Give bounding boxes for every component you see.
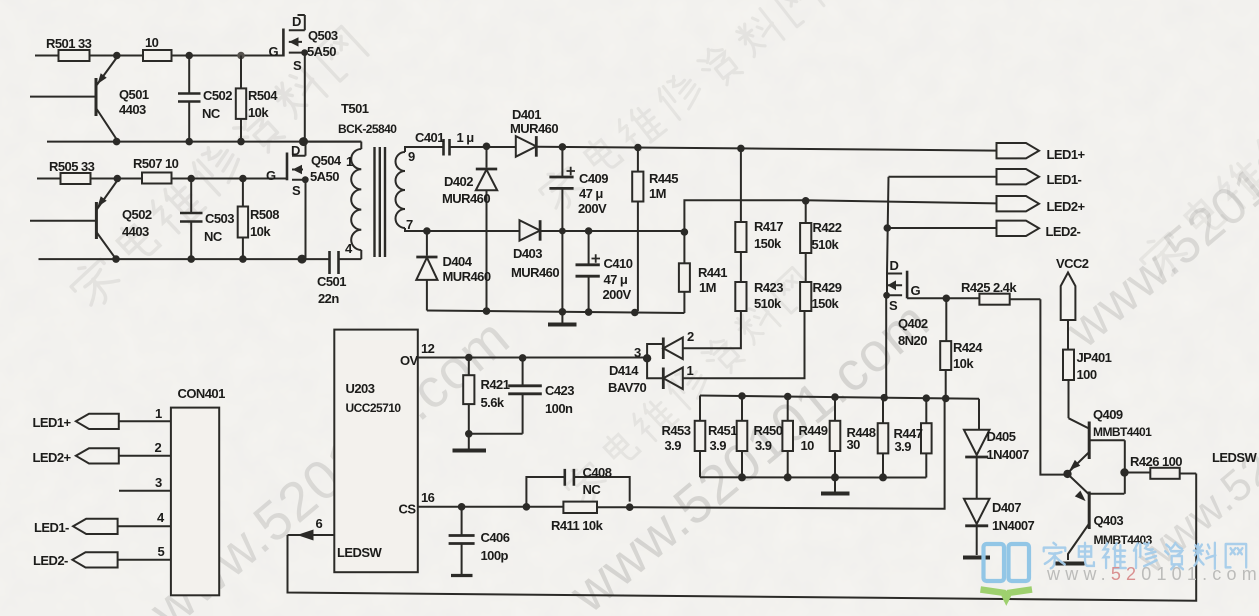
node bottom rail R445 [631, 309, 639, 317]
connector arrow LED1+ (left) [76, 414, 119, 429]
resistor R425 [946, 294, 1040, 305]
svg-text:R449: R449 [799, 423, 828, 438]
svg-text:CON401: CON401 [178, 386, 226, 401]
node Q402 gate / R425 / R424 [943, 295, 951, 303]
svg-text:1: 1 [155, 406, 162, 421]
logo book icon [981, 544, 1033, 602]
svg-text:LED2+: LED2+ [1047, 199, 1086, 214]
svg-text:MUR460: MUR460 [443, 269, 491, 284]
node rail1-C502 [185, 138, 193, 146]
svg-text:1M: 1M [699, 280, 716, 295]
transformer T501 secondary winding [396, 147, 430, 231]
svg-text:R421: R421 [481, 377, 510, 392]
connector arrow LED1- (left) [73, 519, 118, 534]
svg-text:5.6k: 5.6k [481, 395, 505, 410]
svg-text:C408: C408 [583, 465, 612, 480]
node bottom rail C409 [559, 308, 567, 316]
wire sense rail (bank top) [700, 396, 979, 430]
watermark diagonal cjk center [561, 266, 817, 508]
node bank bottom R451 [738, 473, 746, 481]
svg-text:NC: NC [583, 482, 602, 497]
wire U203 pin16 CS [418, 506, 564, 508]
wire CON401 pin1 [119, 420, 171, 422]
diode D404 [416, 231, 437, 311]
svg-text:200V: 200V [603, 287, 632, 302]
svg-text:510k: 510k [812, 237, 840, 252]
svg-text:D404: D404 [443, 254, 473, 269]
diode D407 [964, 499, 990, 555]
node bank top Q402 source [880, 394, 888, 402]
node rail1-Q501 collector [113, 138, 121, 146]
resistor R441 [679, 232, 690, 313]
capacitor C423 [508, 358, 542, 434]
transistor Q501 [30, 58, 117, 140]
wire U203 pin6 LEDSW with arrow [288, 530, 335, 541]
resistor R508 [238, 179, 248, 260]
svg-text:R504: R504 [248, 88, 278, 103]
capacitor C409 [549, 147, 575, 311]
transistor Q502 [30, 181, 117, 260]
svg-text:OV: OV [400, 353, 419, 368]
svg-text:Q502: Q502 [122, 207, 152, 222]
svg-text:Q501: Q501 [119, 87, 149, 102]
node bank top R449 [831, 393, 839, 401]
node mid rail C409 cross [559, 228, 566, 235]
svg-text:9: 9 [408, 149, 415, 164]
svg-text:R508: R508 [250, 207, 279, 222]
svg-text:5: 5 [158, 544, 165, 559]
svg-text:6: 6 [316, 516, 323, 531]
svg-text:LED1-: LED1- [1047, 172, 1082, 187]
node bank top R424/R411 [942, 395, 950, 403]
svg-text:BCK-25840: BCK-25840 [338, 122, 397, 136]
svg-text:R507 10: R507 10 [133, 156, 179, 171]
ground under rectifier rail [548, 312, 577, 325]
capacitor C503 [180, 179, 203, 260]
svg-text:MUR460: MUR460 [442, 191, 490, 206]
svg-text:3.9: 3.9 [665, 438, 682, 453]
svg-text:C409: C409 [579, 171, 608, 186]
svg-text:R417: R417 [754, 219, 783, 234]
node top rail D402 [483, 143, 491, 151]
resistor R447 [921, 398, 932, 477]
svg-text:MMBT4401: MMBT4401 [1093, 425, 1152, 439]
connector arrow LED1- (right) [889, 169, 1040, 184]
svg-text:Q504: Q504 [311, 153, 342, 168]
svg-text:D405: D405 [987, 429, 1016, 444]
connector arrow LED2+ (right) [997, 196, 1040, 211]
transistor Q409 [1069, 418, 1125, 472]
svg-text:C501: C501 [317, 274, 346, 289]
svg-text:G: G [269, 44, 279, 59]
svg-text:MUR460: MUR460 [510, 121, 558, 136]
wire bank bottom rail [700, 476, 926, 478]
svg-text:G: G [911, 283, 921, 298]
svg-text:150k: 150k [812, 296, 840, 311]
node bank bottom R450 [784, 473, 792, 481]
svg-text:R426 100: R426 100 [1130, 454, 1182, 469]
node rail2-R508 [239, 255, 247, 263]
wire input top rail to R501 [35, 55, 283, 57]
svg-text:1 μ: 1 μ [457, 130, 475, 145]
node wire1-C502 junction [185, 52, 193, 60]
resistor R421 [463, 358, 474, 434]
node 0V C423 [519, 354, 527, 362]
wire CS sense line to bank [630, 398, 945, 508]
connector arrow LED2- (right) [887, 221, 1039, 236]
watermark diagonal cjk top-left [66, 25, 370, 313]
svg-text:R445: R445 [649, 171, 678, 186]
svg-text:2: 2 [155, 440, 162, 455]
node LED2- junction [884, 224, 892, 232]
svg-text:Q503: Q503 [308, 28, 338, 43]
resistor R411 [563, 502, 629, 513]
node R421 ground [465, 430, 473, 438]
node top rail R445 [634, 144, 642, 152]
svg-text:150k: 150k [754, 236, 782, 251]
transformer T501 core [375, 147, 386, 257]
diode D402 [476, 146, 497, 311]
svg-text:G: G [266, 168, 276, 183]
diode D405 [964, 430, 990, 499]
svg-text:C502: C502 [203, 88, 232, 103]
svg-text:10k: 10k [248, 105, 269, 120]
resistor R453 [695, 396, 706, 478]
svg-text:VCC2: VCC2 [1056, 256, 1089, 271]
resistor R505 [61, 173, 91, 184]
svg-text:D407: D407 [992, 500, 1021, 515]
connector arrow LED2- (left) [72, 552, 117, 567]
svg-text:D403: D403 [513, 246, 542, 261]
svg-text:CS: CS [399, 502, 417, 517]
svg-text:UCC25710: UCC25710 [346, 401, 402, 415]
resistor R429 [683, 282, 812, 378]
transistor Q402 (MOSFET) [883, 271, 946, 398]
svg-text:D: D [291, 143, 300, 158]
svg-text:C410: C410 [604, 256, 633, 271]
resistor R501 [59, 50, 90, 61]
svg-text:R422: R422 [813, 220, 842, 235]
wire R441 node up to LED2+ [684, 200, 996, 232]
ground under R421 [453, 434, 487, 451]
capacitor C408 [526, 469, 629, 507]
wire R421-C423 bottom link [469, 433, 523, 435]
svg-text:12: 12 [421, 341, 435, 356]
wire U203 pin12 0V [418, 357, 647, 359]
connector arrow LED1+ (right) [997, 143, 1040, 158]
svg-text:R505 33: R505 33 [49, 159, 95, 174]
svg-text:BAV70: BAV70 [608, 380, 647, 395]
node rail2-Q504 source / C501 [298, 255, 307, 264]
node driver bases R426 [1120, 468, 1128, 476]
svg-text:1N4007: 1N4007 [987, 447, 1030, 462]
svg-text:D: D [292, 14, 301, 29]
wire input Q502 stage [37, 178, 287, 180]
svg-text:LED1+: LED1+ [33, 415, 72, 430]
svg-text:S: S [889, 298, 898, 313]
svg-text:1M: 1M [649, 186, 666, 201]
connector CON401 box [171, 408, 219, 596]
resistor R426 [1125, 468, 1197, 479]
node LED2+ R422 branch [802, 197, 810, 205]
resistor R451 [737, 396, 748, 478]
svg-text:4403: 4403 [122, 224, 149, 239]
resistor R417 [735, 148, 746, 282]
wire bottom rectifier rail [427, 311, 685, 314]
node wire3-R508 [239, 175, 247, 183]
op-amp U203 (controller IC box) [334, 330, 418, 573]
svg-text:R423: R423 [754, 280, 783, 295]
svg-text:MUR460: MUR460 [511, 265, 559, 280]
resistor R504 [236, 56, 246, 142]
svg-text:R501 33: R501 33 [46, 36, 92, 51]
ground under bank [821, 477, 850, 493]
resistor R507 [142, 173, 172, 184]
wire R425 down to driver [1040, 299, 1066, 474]
node rail2-Q502 collector [112, 255, 120, 263]
capacitor C401 [444, 139, 516, 156]
svg-text:7: 7 [406, 217, 413, 232]
svg-text:C423: C423 [545, 383, 574, 398]
node wire1-Q501 emitter junction [113, 52, 121, 60]
svg-text:U203: U203 [346, 381, 375, 396]
svg-text:R425 2.4k: R425 2.4k [961, 280, 1017, 295]
capacitor C410 [576, 231, 601, 311]
svg-text:D414: D414 [609, 363, 639, 378]
node bank top R451 [738, 392, 746, 400]
node rail2-C503 [187, 255, 195, 263]
svg-text:30: 30 [847, 437, 861, 452]
ground under D407 [963, 556, 990, 560]
resistor R445 [632, 148, 643, 312]
svg-text:5A50: 5A50 [307, 44, 336, 59]
svg-text:C406: C406 [481, 530, 510, 545]
node bottom rail C410 [585, 308, 593, 316]
svg-text:R424: R424 [953, 340, 983, 355]
resistor JP401 [1063, 350, 1074, 419]
node wire3-C503 [187, 175, 195, 183]
svg-text:R453: R453 [662, 423, 691, 438]
power VCC2 arrow [1061, 273, 1076, 350]
wire mid rail (pin7) [427, 230, 685, 232]
svg-text:10k: 10k [953, 356, 974, 371]
node CS R411 left / C408 [523, 503, 531, 511]
svg-text:3: 3 [155, 475, 162, 490]
svg-text:LED2+: LED2+ [33, 450, 72, 465]
diode D414 pin2 [647, 338, 683, 360]
wire secondary top to C401 [429, 146, 444, 148]
svg-text:1N4007: 1N4007 [992, 518, 1035, 533]
svg-text:10: 10 [801, 438, 815, 453]
svg-text:100p: 100p [481, 548, 509, 563]
svg-text:JP401: JP401 [1077, 350, 1112, 365]
svg-text:NC: NC [202, 106, 221, 121]
node driver emitters [1063, 470, 1071, 478]
svg-text:Q403: Q403 [1094, 513, 1124, 528]
wire CON401 pin2 [119, 455, 171, 457]
svg-text:16: 16 [421, 490, 435, 505]
wire rail1 (upper stage common) [47, 141, 361, 143]
node wire3-Q502 emitter [114, 175, 122, 183]
svg-text:Q409: Q409 [1093, 407, 1123, 422]
capacitor C406 [449, 507, 475, 576]
svg-text:1: 1 [687, 363, 694, 378]
svg-text:Q402: Q402 [898, 316, 928, 331]
resistor R449 [830, 397, 841, 478]
node CS C406 [458, 503, 466, 511]
svg-text:R441: R441 [698, 265, 727, 280]
svg-text:S: S [293, 58, 302, 73]
capacitor C502 [178, 56, 201, 142]
ground under Q403 [1056, 562, 1085, 566]
connector arrow LED2+ (left) [76, 448, 119, 463]
svg-text:www.520101.com: www.520101.com [1046, 564, 1259, 584]
node D414 pin3 [643, 354, 651, 362]
svg-text:R451: R451 [708, 423, 737, 438]
svg-text:LEDSW: LEDSW [337, 545, 382, 560]
svg-text:R450: R450 [754, 423, 783, 438]
wire rail2 (lower stage common) [39, 258, 303, 260]
transistor Q503 (MOSFET) [283, 15, 308, 142]
diode D403 [520, 220, 541, 241]
node bottom rail D402 [483, 307, 491, 315]
svg-text:S: S [292, 183, 301, 198]
wire LEDSW net down and across bottom [288, 474, 1197, 601]
svg-text:D: D [890, 258, 899, 273]
svg-text:D401: D401 [512, 107, 541, 122]
node top rail R417 branch [737, 145, 745, 153]
node top rail C409 [559, 143, 567, 151]
diode D401 [516, 136, 537, 157]
node bank bottom R449 [831, 473, 839, 481]
svg-text:T501: T501 [341, 101, 369, 116]
node rail1-R504 [237, 138, 245, 146]
node bank top R447 [923, 394, 931, 402]
node mid rail R441 [681, 228, 689, 236]
svg-text:LED1+: LED1+ [1047, 147, 1086, 162]
svg-text:100: 100 [1077, 367, 1097, 382]
svg-text:C401: C401 [415, 130, 444, 145]
transistor Q403 [1068, 474, 1125, 560]
node R411 right [626, 503, 634, 511]
transistor Q504 (MOSFET) [287, 142, 309, 260]
watermark diagonal cjk top-center [535, 0, 825, 216]
diode D414 pin1 [647, 358, 683, 389]
svg-text:100n: 100n [545, 401, 573, 416]
logo cjk text blue [1044, 543, 1247, 569]
node 0V R421 [465, 354, 473, 362]
resistor 10 (upper) [143, 50, 172, 61]
node mid rail pin7 [423, 227, 431, 235]
wire CON401 pin4 [118, 525, 171, 527]
svg-text:LED1-: LED1- [34, 520, 69, 535]
svg-text:LEDSW: LEDSW [1212, 450, 1257, 465]
svg-text:LED2-: LED2- [1046, 224, 1081, 239]
svg-text:3.9: 3.9 [755, 438, 772, 453]
resistor R424 [940, 298, 951, 398]
node wire1-R504 junction [237, 52, 245, 60]
resistor R450 [782, 397, 793, 479]
svg-text:1: 1 [346, 154, 353, 169]
svg-text:8N20: 8N20 [898, 333, 927, 348]
svg-text:22n: 22n [318, 291, 339, 306]
transformer T501 primary winding [304, 142, 362, 260]
capacitor C501 [302, 251, 361, 274]
svg-text:LED2-: LED2- [33, 553, 68, 568]
svg-text:MMBT4403: MMBT4403 [1094, 533, 1153, 547]
svg-text:5A50: 5A50 [310, 169, 339, 184]
svg-text:4403: 4403 [119, 102, 146, 117]
node bank bottom R448 [879, 473, 887, 481]
svg-text:R411 10k: R411 10k [551, 518, 604, 533]
node rail1-Q503 source / T501 pin1 [299, 137, 308, 146]
wire LED1-/LED2- down to Q402 drain [887, 177, 889, 274]
svg-text:200V: 200V [578, 201, 607, 216]
resistor R423 [683, 282, 747, 348]
node mid rail C410 [585, 227, 593, 235]
svg-text:D402: D402 [444, 174, 473, 189]
node bank top R450 [784, 393, 792, 401]
svg-text:3.9: 3.9 [895, 439, 912, 454]
wire top output rail to LED1+ [536, 147, 996, 151]
watermark diagonal cjk top-right [1135, 8, 1259, 284]
wire CON401 pin5 [118, 559, 171, 561]
svg-text:47 μ: 47 μ [579, 186, 603, 201]
wire CON401 pin3 [119, 490, 171, 492]
svg-text:10: 10 [145, 35, 159, 50]
svg-text:10k: 10k [250, 224, 271, 239]
svg-text:3.9: 3.9 [710, 438, 727, 453]
svg-text:47 μ: 47 μ [604, 272, 628, 287]
resistor R448 [878, 398, 889, 478]
svg-text:C503: C503 [205, 211, 234, 226]
resistor R422 [800, 201, 811, 282]
svg-text:R429: R429 [813, 280, 842, 295]
svg-text:510k: 510k [754, 296, 782, 311]
svg-text:2: 2 [687, 329, 694, 344]
wire driver bases [1124, 440, 1126, 494]
svg-text:NC: NC [204, 229, 223, 244]
